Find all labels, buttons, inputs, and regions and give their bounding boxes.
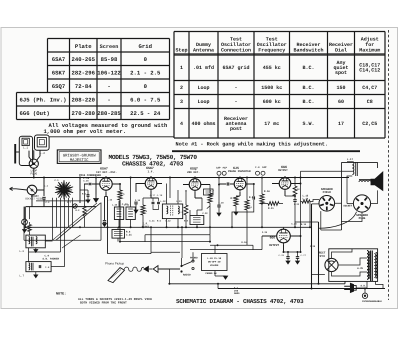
grid cap C15	[89, 182, 92, 184]
svg-text:S.W.: S.W.	[302, 121, 314, 127]
resistor R3	[118, 190, 122, 200]
svg-text:5Y3: 5Y3	[320, 255, 325, 258]
svg-text:C14,C12: C14,C12	[359, 68, 380, 74]
svg-text:OUTPUT: OUTPUT	[269, 244, 279, 247]
svg-text:L.1: L.1	[23, 147, 28, 150]
svg-text:MAJESTIC: MAJESTIC	[70, 158, 89, 163]
svg-text:R.16: R.16	[241, 241, 247, 244]
antenna arrow	[10, 187, 17, 190]
tube V5 6G6	[278, 165, 291, 191]
svg-text:6SA7 grid: 6SA7 grid	[222, 65, 249, 71]
svg-text:-: -	[234, 99, 237, 105]
svg-text:C8: C8	[367, 99, 373, 105]
svg-text:#1P: #1P	[223, 166, 228, 169]
pilot lamp	[362, 289, 382, 304]
svg-text:C2,C5: C2,C5	[362, 121, 377, 127]
svg-text:L.11: L.11	[124, 204, 130, 207]
svg-text:Phono Pickup: Phono Pickup	[105, 262, 124, 266]
pickup cable	[125, 267, 144, 271]
wire: speaker connections	[321, 182, 378, 230]
wire: main B+ top bus	[10, 177, 349, 179]
svg-text:L.12: L.12	[160, 200, 166, 203]
svg-text:C.25: C.25	[262, 231, 268, 234]
IF transformer T1	[114, 207, 123, 220]
wire: T3 taps	[301, 162, 353, 182]
speaker assembly box	[342, 162, 378, 230]
ground (L6)	[35, 248, 37, 250]
radio-phono switch SW2	[180, 257, 198, 277]
svg-text:6SQ7: 6SQ7	[52, 83, 65, 90]
svg-text:R.5: R.5	[179, 211, 184, 214]
wire: loops to plug	[29, 150, 40, 160]
svg-text:6.0 - 7.5: 6.0 - 7.5	[130, 96, 161, 103]
wire: phono to switch	[158, 268, 180, 270]
svg-text:72-84: 72-84	[75, 83, 92, 90]
wire: left bus y201	[36, 200, 90, 202]
svg-text:6G6 (Out): 6G6 (Out)	[20, 110, 50, 117]
svg-text:C.7: C.7	[67, 201, 72, 204]
wire: inverter branch	[190, 236, 262, 250]
tube V1 6SA7	[96, 167, 117, 192]
speaker cone	[371, 172, 383, 190]
power transformer T4	[357, 251, 377, 288]
tube V2 6SK7	[145, 166, 157, 191]
svg-text:C.22: C.22	[202, 212, 208, 215]
cap C16b	[134, 201, 137, 203]
svg-text:C.12: C.12	[165, 220, 171, 223]
svg-text:6.3V: 6.3V	[357, 267, 363, 270]
loop socket S1	[25, 185, 43, 200]
svg-text:C.21: C.21	[126, 234, 132, 237]
svg-text:2ND DET.: 2ND DET.	[187, 171, 200, 174]
resistor R9	[245, 200, 249, 210]
wire: V1 leads	[84, 184, 120, 197]
trimmer caps C4 row	[255, 166, 267, 175]
wire: plug drop wires	[295, 212, 362, 229]
antenna terminal bar	[14, 144, 16, 164]
resistor R8	[234, 196, 238, 206]
wire: phono bus left drop	[158, 269, 169, 284]
svg-text:C.23: C.23	[294, 203, 300, 206]
wire: AC line bus	[218, 288, 385, 290]
svg-text:C.2: C.2	[46, 201, 51, 204]
trimmer caps row	[216, 166, 228, 175]
svg-text:2: 2	[180, 85, 183, 91]
svg-text:NOTE:: NOTE:	[56, 292, 66, 297]
resistor R11	[268, 202, 279, 206]
svg-text:600 kc: 600 kc	[263, 99, 281, 105]
svg-text:C.28: C.28	[310, 245, 316, 248]
wire: V2 leads	[136, 184, 162, 199]
svg-text:OUTPUT: OUTPUT	[278, 169, 288, 172]
svg-text:106-122: 106-122	[97, 69, 121, 76]
wire: AVC bus	[26, 226, 310, 228]
svg-text:455 kc: 455 kc	[263, 65, 281, 71]
svg-text:60: 60	[338, 99, 344, 105]
ground (SW3)	[215, 275, 226, 277]
svg-text:6J5 (Ph. Inv.): 6J5 (Ph. Inv.)	[20, 96, 67, 103]
wire: socket leads	[16, 189, 44, 207]
power feed verticals	[311, 204, 313, 289]
tube V4 6J5	[228, 166, 251, 192]
resistor R2	[83, 206, 87, 216]
svg-text:Loop: Loop	[197, 85, 209, 91]
svg-text:R.8: R.8	[184, 220, 189, 223]
svg-text:17: 17	[338, 121, 344, 127]
power unit box	[329, 249, 378, 282]
svg-text:post: post	[230, 126, 242, 132]
svg-text:SOCKET VIEW: SOCKET VIEW	[25, 198, 43, 201]
wire: B+ out	[312, 273, 325, 275]
svg-text:RADIO: RADIO	[183, 273, 191, 276]
svg-text:R.10: R.10	[264, 190, 270, 193]
svg-text:1ST DET.-OSC.: 1ST DET.-OSC.	[96, 171, 117, 174]
svg-text:270-280: 270-280	[72, 110, 96, 117]
svg-text:S.W. PADDER: S.W. PADDER	[43, 258, 60, 261]
wire: box R14 leads	[117, 227, 119, 241]
resistor R4	[141, 205, 145, 215]
svg-text:PHONO: PHONO	[190, 257, 198, 260]
svg-text:PHASE INVERTER: PHASE INVERTER	[228, 170, 251, 173]
wire: osc box links	[29, 241, 65, 267]
svg-text:R.15: R.15	[301, 223, 307, 226]
svg-text:280-285: 280-285	[97, 110, 121, 117]
svg-text:R.4: R.4	[143, 210, 148, 213]
svg-text:C.8: C.8	[45, 266, 50, 269]
wire: plug to transformer	[356, 282, 383, 289]
svg-text:L.17: L.17	[347, 158, 354, 161]
svg-text:208-220: 208-220	[72, 96, 96, 103]
svg-text:1: 1	[180, 65, 183, 71]
wire: osc verticals	[24, 207, 30, 236]
svg-text:3: 3	[180, 99, 183, 105]
oscillator coil box L6	[19, 235, 45, 253]
svg-text:4: 4	[180, 121, 183, 127]
svg-text:CAP: CAP	[216, 166, 221, 169]
svg-text:C.10: C.10	[135, 199, 141, 202]
svg-text:2.1 - 2.5: 2.1 - 2.5	[130, 69, 161, 76]
speaker field socket	[319, 188, 335, 211]
wire: bus y241	[120, 235, 210, 242]
svg-text:OHMS: OHMS	[234, 292, 240, 295]
svg-text:Maximum: Maximum	[359, 48, 380, 54]
svg-text:85-98: 85-98	[101, 56, 118, 63]
svg-text:PHONO SW: PHONO SW	[206, 272, 218, 275]
svg-text:SCHEMATIC DIAGRAM - CHASSIS 47: SCHEMATIC DIAGRAM - CHASSIS 4702, 4703	[176, 298, 304, 305]
wire: switch riser	[182, 227, 194, 266]
wire: V5 leads	[272, 184, 301, 197]
svg-text:R.7: R.7	[210, 190, 215, 193]
IF transformer T2	[162, 204, 182, 219]
svg-text:L.20 PL.16: L.20 PL.16	[207, 257, 221, 260]
brand box Grigsby-Grunow Majestic	[57, 150, 101, 164]
svg-text:Grid: Grid	[139, 43, 152, 50]
wire: left feeds	[43, 178, 45, 197]
wire: T2 leads	[167, 184, 179, 228]
resistor R13	[302, 200, 310, 203]
AC plug	[344, 283, 356, 292]
cap C21	[252, 196, 254, 199]
svg-text:1,000 ohm per volt meter.: 1,000 ohm per volt meter.	[44, 128, 127, 135]
svg-text:17 mc: 17 mc	[264, 121, 279, 127]
dashed cut line	[388, 30, 390, 300]
wire: V4 plate	[240, 184, 254, 196]
IF transformer T1b	[122, 203, 136, 220]
wire: long risers	[218, 178, 310, 289]
trimmer capacitor C5	[73, 204, 77, 208]
wire: field to R13	[310, 200, 319, 202]
trimmers C17 C18	[150, 194, 163, 209]
svg-text:Screen: Screen	[100, 44, 119, 50]
wire: V5 plate riser	[285, 178, 301, 253]
svg-text:C.16: C.16	[107, 199, 113, 202]
svg-text:B.C.: B.C.	[302, 65, 314, 71]
svg-text:.01 mfd: .01 mfd	[193, 65, 214, 71]
svg-text:B.C.: B.C.	[302, 99, 314, 105]
resistor R12	[293, 186, 297, 196]
svg-text:6G6: 6G6	[270, 237, 276, 240]
wire: AVC drop left	[108, 227, 181, 253]
wire: bandswitch risers	[52, 198, 54, 228]
rectifier V7 5Y3	[319, 252, 339, 272]
wire: rect-transformer	[332, 249, 368, 276]
svg-text:-: -	[234, 85, 237, 91]
heavy rule under note	[172, 150, 360, 152]
svg-text:C.3: C.3	[55, 179, 60, 182]
svg-text:GRIGSBY-GRUNOW: GRIGSBY-GRUNOW	[63, 153, 96, 158]
svg-text:Connection: Connection	[221, 48, 251, 54]
wire: ground return bus	[169, 281, 345, 283]
svg-text:Antenna: Antenna	[193, 48, 214, 54]
capacitor C6	[87, 194, 90, 196]
svg-text:C.19: C.19	[218, 202, 224, 205]
svg-text:R.1: R.1	[82, 193, 87, 196]
svg-text:C.11: C.11	[149, 220, 155, 223]
svg-text:282-296: 282-296	[72, 69, 96, 76]
svg-text:6SA7: 6SA7	[52, 56, 65, 63]
svg-text:L.7: L.7	[19, 275, 24, 278]
svg-text:-: -	[107, 83, 110, 90]
coupling cap C20	[226, 182, 228, 185]
cap C16a	[103, 220, 106, 222]
T3 secondary	[359, 181, 371, 183]
loop antenna L1	[19, 136, 32, 165]
wire: left bus y206	[26, 206, 96, 208]
svg-text:C.17 C.18: C.17 C.18	[150, 194, 163, 197]
resistor R10	[260, 194, 264, 204]
junction dots	[43, 177, 45, 179]
svg-text:I.F.: I.F.	[148, 170, 154, 173]
osc section enclosure	[24, 203, 101, 241]
svg-text:Loop: Loop	[197, 99, 209, 105]
svg-text:spot: spot	[335, 70, 347, 76]
wire: misc risers	[26, 178, 247, 246]
svg-text:Dial: Dial	[335, 48, 347, 54]
wire: under-gang diagonal	[56, 203, 101, 240]
svg-text:FIELD: FIELD	[323, 191, 332, 194]
svg-text:R.8: R.8	[231, 197, 236, 200]
svg-text:400 ohms: 400 ohms	[191, 121, 215, 127]
padder capacitor C14	[42, 196, 45, 198]
diode load box	[190, 216, 204, 225]
svg-text:CAP: CAP	[262, 166, 267, 169]
svg-text:R.3: R.3	[121, 193, 126, 196]
wire: V3 leads	[183, 185, 210, 199]
tuning gang bandswitch SW1	[55, 180, 73, 199]
svg-text:L.6: L.6	[19, 250, 24, 253]
volume pot R7	[208, 193, 212, 203]
svg-text:L.2: L.2	[40, 152, 45, 155]
svg-text:150: 150	[336, 85, 345, 91]
svg-text:Frequency: Frequency	[258, 48, 285, 54]
svg-text:R.9: R.9	[249, 196, 254, 199]
svg-text:ON-OFF SW: ON-OFF SW	[208, 261, 221, 264]
svg-text:1500 kc: 1500 kc	[261, 85, 282, 91]
V1 cathode pair	[107, 197, 109, 254]
svg-text:6SK7: 6SK7	[52, 69, 65, 76]
wire: V6 leads	[262, 236, 301, 252]
svg-text:L.13: L.13	[176, 200, 182, 203]
cap C23	[293, 199, 296, 201]
wire: field link	[312, 203, 320, 205]
det output box	[204, 189, 214, 195]
svg-text:C.4: C.4	[255, 166, 260, 169]
wire: T1 leads	[119, 178, 131, 228]
ground arrow mid	[95, 195, 97, 199]
tube V6 6G6	[269, 228, 290, 248]
svg-text:R.11: R.11	[268, 207, 274, 210]
svg-text:S.W.: S.W.	[361, 285, 367, 288]
svg-text:ALL TUBES & SOCKETS #2931-1-45: ALL TUBES & SOCKETS #2931-1-45 RESPL VIE…	[78, 298, 152, 301]
resistor R1	[28, 225, 32, 232]
tiny component labels	[33, 179, 315, 248]
ground (left osc)	[23, 230, 27, 233]
svg-text:22.5 - 24: 22.5 - 24	[130, 110, 161, 117]
svg-text:C.27: C.27	[301, 254, 307, 257]
on-off switch box SW3	[202, 254, 228, 276]
svg-text:VOLUME: VOLUME	[210, 264, 219, 267]
svg-text:Plate: Plate	[75, 43, 92, 50]
trimmer capacitor C2	[22, 219, 28, 225]
svg-text:B.C.: B.C.	[302, 85, 314, 91]
alignment table	[174, 32, 385, 139]
svg-text:C.1: C.1	[44, 185, 49, 188]
wire: bias row	[284, 251, 301, 253]
svg-text:R.14: R.14	[246, 206, 252, 209]
svg-text:C4,C7: C4,C7	[362, 85, 377, 91]
cap C19	[217, 204, 220, 206]
svg-text:R.12: R.12	[294, 188, 300, 191]
resistor R5	[184, 205, 188, 215]
output transformer T3	[347, 158, 357, 176]
svg-text:R.2: R.2	[76, 209, 81, 212]
svg-text:Note #1 - Rock gang while maki: Note #1 - Rock gang while making this ad…	[176, 142, 329, 148]
caps C26 C27	[278, 252, 290, 264]
svg-text:L.10: L.10	[112, 204, 118, 207]
ground (L7)	[35, 272, 37, 275]
svg-text:C.14: C.14	[33, 195, 39, 198]
svg-text:-: -	[107, 96, 110, 103]
svg-text:R.6: R.6	[157, 220, 162, 223]
svg-text:240-265: 240-265	[72, 56, 96, 63]
wire: osc to bus diagonal	[62, 235, 81, 248]
svg-text:BOTH VIEWED FROM THE FRONT: BOTH VIEWED FROM THE FRONT	[80, 302, 127, 305]
phono pickup arm	[105, 262, 125, 283]
wire: box leads	[197, 198, 202, 227]
svg-text:C.26: C.26	[278, 254, 284, 257]
tube V3 6SQ7	[187, 167, 201, 192]
svg-text:C.24: C.24	[291, 223, 297, 226]
wire: plug to bus	[33, 168, 35, 177]
loop plug P1	[29, 159, 38, 176]
speaker plug P2	[343, 195, 370, 220]
wire: link above models title	[49, 136, 174, 138]
phono plug pair	[144, 266, 148, 271]
resistor box R14	[112, 230, 132, 239]
oscillator coil box L7	[19, 262, 51, 278]
svg-text:Bandswitch: Bandswitch	[293, 48, 323, 54]
loop antenna L2	[35, 135, 50, 155]
svg-text:INTERCHANGEABLE: INTERCHANGEABLE	[362, 300, 382, 303]
svg-text:Step: Step	[175, 48, 187, 54]
svg-text:SOCKET: SOCKET	[343, 205, 352, 208]
svg-text:C.15: C.15	[83, 180, 89, 183]
tube voltage table	[17, 39, 170, 120]
wire: SW3 leads	[210, 245, 232, 276]
